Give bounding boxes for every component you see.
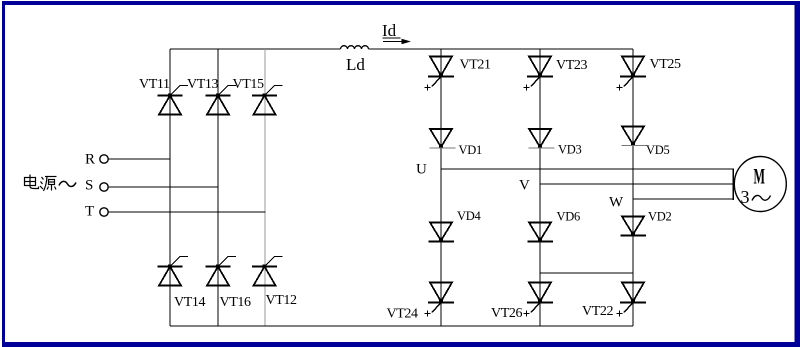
wire right bridge leg 1 (440, 49, 442, 326)
svg-text:VD3: VD3 (558, 143, 581, 157)
svg-text:VD1: VD1 (459, 143, 482, 157)
diode VD2 (621, 217, 647, 237)
svg-text:U: U (416, 162, 427, 178)
svg-text:V: V (519, 178, 530, 194)
motor M 3~ (733, 157, 786, 212)
thyristor VT14 (158, 257, 189, 286)
svg-text:T: T (85, 204, 94, 220)
wire W phase output (633, 198, 733, 200)
svg-text:VT22: VT22 (582, 304, 613, 319)
diode VD4 (429, 223, 455, 243)
wire S phase (108, 186, 218, 188)
thyristor VT26 (524, 283, 554, 317)
wire top bus left segment (170, 48, 341, 50)
wire link leg2-leg3 (540, 272, 633, 274)
svg-text:Ld: Ld (346, 55, 365, 74)
svg-text:Id: Id (382, 21, 397, 40)
terminal S (85, 178, 108, 194)
thyristor VT13 (206, 86, 237, 115)
svg-text:R: R (85, 152, 95, 168)
inductor Ld (341, 46, 369, 49)
wire right bridge leg 2 (539, 49, 541, 326)
svg-text:VT14: VT14 (174, 295, 205, 310)
thyristor VT22 (617, 283, 647, 317)
diode VD3 (529, 129, 555, 149)
wire left bridge leg 3 (grey) (264, 49, 266, 326)
svg-text:VT12: VT12 (266, 293, 297, 308)
wire left bridge leg 2 (217, 49, 219, 326)
thyristor VT24 (425, 283, 455, 317)
thyristor VT16 (206, 257, 237, 286)
svg-text:VD6: VD6 (557, 210, 580, 224)
svg-text:VT11: VT11 (139, 77, 170, 92)
wire R phase (108, 158, 170, 160)
thyristor VT21 (425, 57, 455, 91)
svg-text:VT23: VT23 (556, 58, 587, 73)
terminal T (85, 204, 108, 220)
thyristor VT12 (252, 257, 283, 286)
wire bottom bus (170, 325, 633, 327)
wire U phase output (441, 168, 733, 170)
svg-text:VD4: VD4 (457, 209, 481, 223)
wire top bus right segment (369, 48, 634, 50)
diode VD6 (528, 223, 554, 243)
wire left bridge leg 1 (169, 49, 171, 326)
svg-text:VT13: VT13 (187, 77, 218, 92)
svg-text:VT21: VT21 (460, 58, 491, 73)
node Id current label with underline and arrow (382, 21, 411, 44)
svg-text:VD2: VD2 (648, 210, 671, 224)
label 电源~ (AC power source) drawn strokes (25, 175, 77, 192)
svg-text:VT24: VT24 (387, 307, 418, 322)
diode VD1 (430, 129, 456, 149)
svg-text:W: W (609, 195, 624, 211)
terminal R (85, 152, 108, 168)
svg-text:M: M (754, 164, 766, 189)
thyristor VT15 (252, 86, 283, 115)
wire V phase output (540, 183, 733, 185)
wire right bridge leg 3 (632, 49, 634, 326)
svg-text:VT25: VT25 (650, 57, 681, 72)
svg-text:VT16: VT16 (220, 295, 251, 310)
thyristor VT11 (158, 86, 189, 115)
thyristor VT25 (617, 57, 647, 91)
thyristor VT23 (524, 57, 554, 91)
svg-text:VD5: VD5 (646, 143, 669, 157)
svg-text:S: S (85, 178, 93, 194)
svg-text:VT15: VT15 (233, 77, 264, 92)
diode VD5 (622, 127, 648, 147)
svg-text:VT26: VT26 (491, 306, 522, 321)
svg-text:3: 3 (741, 187, 750, 207)
wire T phase (108, 211, 265, 213)
